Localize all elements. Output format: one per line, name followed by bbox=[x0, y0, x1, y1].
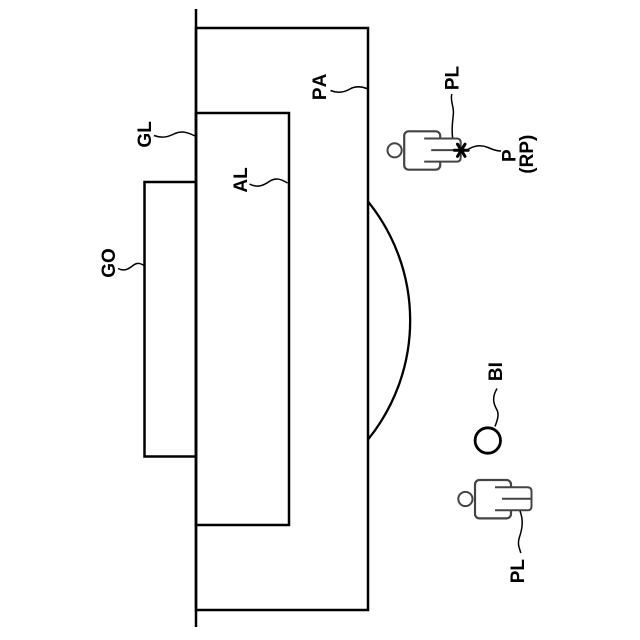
svg-text:GL: GL bbox=[135, 121, 156, 148]
leader PL lower bbox=[518, 511, 522, 553]
leader P bbox=[467, 146, 501, 151]
svg-text:PA: PA bbox=[310, 72, 331, 100]
wire GL vertical line bbox=[195, 9, 198, 627]
node GO rectangle bbox=[145, 182, 197, 457]
leader GL bbox=[154, 132, 195, 137]
svg-text:PL: PL bbox=[443, 65, 464, 90]
node PA rectangle bbox=[196, 28, 368, 610]
svg-text:PL: PL bbox=[508, 559, 529, 584]
svg-text:(RP): (RP) bbox=[517, 135, 538, 174]
svg-text:AL: AL bbox=[231, 167, 252, 193]
ball BI circle bbox=[475, 428, 500, 453]
player PL lower bbox=[458, 480, 531, 518]
leader BI bbox=[494, 389, 498, 427]
leader GO bbox=[118, 263, 144, 270]
svg-text:GO: GO bbox=[99, 248, 120, 278]
svg-text:BI: BI bbox=[486, 362, 507, 381]
node AL rectangle bbox=[196, 113, 289, 525]
leader PL upper bbox=[451, 94, 453, 138]
point P asterisk bbox=[454, 144, 468, 156]
player PL upper bbox=[388, 131, 461, 169]
leader AL bbox=[250, 179, 288, 186]
arc on PA right edge bbox=[368, 202, 410, 440]
leader PA bbox=[331, 87, 369, 93]
